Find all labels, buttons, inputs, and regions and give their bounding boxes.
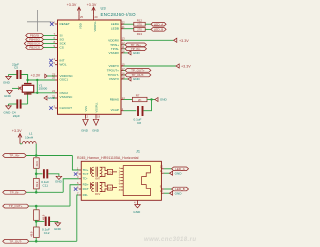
svg-text:GND: GND [4,94,12,98]
junction OSC2 [26,92,28,94]
svg-text:TP_OUT-: TP_OUT- [9,239,22,243]
svg-text:10: 10 [52,20,55,24]
label LED_A (right) [172,167,189,171]
label TP_OUT- (bottom) [3,239,29,243]
label TP_OUT- [125,73,151,77]
label GND (VSSRX) [128,51,131,55]
RJ45 jack pin ticks [120,168,123,190]
label GND (LED_B) [170,191,173,195]
wire VDDRX to +3.3V [124,39,174,41]
power flag +3.3V (L1) [18,134,22,144]
svg-text:RCV: RCV [95,193,101,196]
IC left pin stubs [55,24,58,108]
svg-text:RESET: RESET [60,22,70,26]
svg-text:TPOUT+: TPOUT+ [107,69,119,73]
IC bottom pin stubs [85,114,87,119]
svg-text:22pF: 22pF [13,114,20,118]
no-connect TCT [74,172,77,175]
svg-text:LEDA: LEDA [111,22,120,26]
ground C11 [55,176,63,183]
svg-text:GND: GND [92,128,100,132]
ground C5 [3,75,11,85]
label LED_B (top) [151,28,166,32]
label TP_OUT+ (bottom) [3,204,29,208]
svg-text:TP_OUT+: TP_OUT+ [9,204,23,208]
svg-text:GND: GND [175,171,183,175]
wire TPOUT- [124,74,126,76]
resistor R11 [30,227,40,238]
svg-text:+3.3V: +3.3V [31,73,41,77]
svg-text:RCT: RCT [83,187,89,191]
svg-text:GND: GND [55,179,63,183]
svg-text:CLKOUT: CLKOUT [60,106,73,110]
svg-text:25: 25 [80,15,83,19]
svg-text:C11: C11 [43,184,49,188]
svg-text:RJ45_Hanrun_HR911105A_Horizont: RJ45_Hanrun_HR911105A_Horizontal [77,156,139,160]
cursor crosshair [27,10,52,32]
svg-text:GND: GND [3,80,11,84]
capacitor C4 [12,99,21,118]
wire VCAP [124,110,137,112]
wire LED_A anode [164,168,172,170]
wire TP_IN+ to TD+ [72,156,78,171]
svg-text:LED_A: LED_A [154,22,164,26]
svg-text:J1: J1 [136,150,140,154]
wire C11 to GND [48,174,59,176]
label +3.3V (VDDRX) [174,38,177,42]
label LED_A (top) [151,22,166,26]
wire LED_A cathode [164,172,170,174]
wire R8 bottom [35,168,37,178]
svg-text:U3: U3 [101,6,107,11]
svg-text:49.9: 49.9 [35,181,39,187]
wire SO [44,39,56,41]
svg-text:49.9: 49.9 [30,231,34,237]
svg-text:2K: 2K [138,98,142,102]
svg-text:LEDB: LEDB [111,27,119,31]
capacitor C12 [42,217,50,235]
wire OSC1 to OSC2 link [36,80,38,93]
wire OSC2 [28,93,55,104]
J1 right pin stubs [161,169,164,193]
svg-text:GND: GND [133,51,141,55]
label GND (RBIAS) [155,98,158,102]
no-connect RCT [74,187,77,190]
crystal Y1 [22,80,47,94]
RJ45 jack outline [123,166,150,196]
junction C11 [35,173,38,176]
wire LEDA [124,23,134,25]
svg-text:XMT: XMT [95,178,101,181]
svg-text:VSS: VSS [84,106,88,112]
svg-text:RD-: RD- [83,193,88,197]
svg-text:TP_IN+: TP_IN+ [9,154,20,158]
wire R12 to LED_A [145,23,151,25]
label PB5/SCK [24,42,55,46]
svg-text:10mH: 10mH [25,135,33,139]
wire TP_IN+ row [26,155,72,157]
svg-text:270: 270 [137,23,142,27]
svg-text:VSSTX: VSSTX [109,77,119,81]
svg-text:VSSOSC: VSSOSC [60,95,74,99]
connector J1 RJ45 body [81,161,161,200]
junction C12 [35,220,38,223]
svg-text:+3.3V: +3.3V [87,3,97,7]
J1 left pin stubs [79,170,82,195]
label TP_OUT+ [125,69,151,73]
wire crystal case [12,87,19,89]
label GND (LED_A) [170,171,173,175]
power flag +3.3V (VDD) [77,7,80,15]
IC right pin names [107,22,120,112]
svg-text:GND: GND [54,227,62,231]
svg-text:12: 12 [160,164,163,168]
choke CD lower [107,185,112,190]
wire C5 right [21,75,27,80]
wire R13 to LED_B [145,28,151,30]
IC right pin stubs [121,24,124,111]
wire LED_B anode [164,188,172,190]
junction TP_IN- [35,191,38,194]
svg-text:GND: GND [4,111,12,115]
IC left pin numbers [52,20,56,108]
svg-text:C8: C8 [137,121,141,125]
no-connect crystal [18,87,21,90]
ground C4 [4,104,12,115]
transformer XMT [91,167,104,177]
svg-text:+3.3V: +3.3V [12,129,22,133]
wire TP_OUT+ row [29,205,70,207]
ground C12 [54,223,62,231]
label PB2/CS [26,46,55,50]
svg-text:GND: GND [160,98,168,102]
resistor R9 [34,178,40,189]
svg-text:VSSPLL: VSSPLL [94,102,98,113]
RJ45 jack pin numbers [119,168,121,192]
svg-text:LED_A: LED_A [175,167,185,171]
wire TP_OUT- to RD- [77,195,79,241]
svg-text:C12: C12 [44,231,50,235]
ground J1 shield [133,205,141,215]
svg-text:20: 20 [95,15,98,19]
svg-text:25000: 25000 [39,87,48,91]
ground VSSPLL [93,119,99,125]
svg-text:TP_OUT+: TP_OUT+ [131,69,145,73]
wire R11 bottom [35,238,37,242]
svg-text:GND: GND [133,77,141,81]
resistor R10 [34,210,46,221]
wire CS [44,47,56,49]
junction TP_IN+ [35,154,38,157]
svg-text:ENC28J60-I/SO: ENC28J60-I/SO [101,12,137,17]
ground crystal [4,91,12,99]
wire C8 to junction [144,100,152,111]
wire TP_OUT+ to RD+ [70,185,79,206]
svg-text:RBIAS: RBIAS [110,98,119,102]
wire R7 to junction [147,99,155,101]
capacitor C11 [41,169,49,187]
svg-text:TD-: TD- [83,177,88,181]
wire RBIAS [124,99,133,101]
wire LEDB [124,28,134,30]
svg-text:GND: GND [133,210,141,214]
wire L1 to TP_IN+ node [35,144,37,156]
svg-text:PB2/CS: PB2/CS [29,46,40,50]
op-amp U3 ENC28J60 body [58,20,122,114]
svg-text:CD: CD [108,171,112,174]
label +3.3V (VDDTX) [176,64,179,68]
junction link bottom [36,92,38,94]
wire C4 right [21,103,27,105]
svg-text:R7: R7 [136,94,140,98]
capacitor C8 [134,106,143,125]
svg-text:R12: R12 [137,18,143,22]
svg-text:CS: CS [60,46,64,50]
svg-text:+3.3V: +3.3V [67,3,77,7]
wire TP_IN- to TD- [63,179,79,193]
svg-text:19: 19 [97,115,100,119]
no-connect RESET [50,22,54,26]
svg-text:VDDRX: VDDRX [108,39,119,43]
svg-text:R13: R13 [137,32,143,36]
J1 right pin numbers [160,164,163,193]
wire VSSTX [124,78,128,80]
IC top pin stubs [78,15,80,20]
wire VDDTX to +3.3V [124,65,177,67]
label TP_IN- [125,47,147,51]
wire TPIN+ [124,44,126,46]
label PB3/SI [26,34,55,38]
choke CD upper [107,169,112,174]
wire C5 left [9,74,17,76]
IC left pin names [60,22,74,110]
wire C4 left [9,103,17,105]
junction OSC1 [26,79,28,81]
wire CD links [103,167,117,191]
wire L1 left [20,143,22,145]
svg-text:WOL: WOL [60,63,67,67]
svg-text:CD: CD [108,187,112,190]
wire R9 bottom [35,189,37,192]
J1 left pin names [83,168,89,197]
ground VSS [83,119,89,125]
resistor R7 [132,94,147,102]
svg-text:VDD: VDD [79,23,83,29]
svg-text:www.cnc3018.ru: www.cnc3018.ru [144,237,196,243]
label GND (VSSTX) [128,77,131,81]
no-connect CLKOUT [49,106,53,110]
capacitor C5 [12,62,21,79]
wire R10 bottom [35,220,37,227]
svg-text:49.9: 49.9 [35,161,39,167]
no-connect INT [49,59,53,63]
label GND (VSSOSC) [44,96,47,100]
svg-text:TP_IN-: TP_IN- [10,190,20,194]
no-connect WOL [49,63,53,67]
wire to C12 [36,220,44,222]
power flag +3.3V (VDDPLL) [92,7,95,15]
wire TP_IN- row [26,191,63,193]
wire VDDOSC [47,75,55,77]
label TP_IN- (bottom) [3,190,27,194]
J1 shield pin stub [137,200,139,204]
wire TPOUT+ [124,69,126,71]
IC right pin numbers [122,21,125,112]
svg-text:+3.3V: +3.3V [181,65,191,69]
svg-text:VSSRX: VSSRX [109,51,120,55]
svg-text:+3.3V: +3.3V [179,39,189,43]
svg-text:TCT: TCT [83,172,89,176]
svg-text:GND: GND [81,128,89,132]
svg-text:10: 10 [160,189,163,193]
J1 left pin numbers [77,166,79,195]
junction TP_OUT+ [35,205,38,208]
resistor R13 [134,28,145,37]
svg-text:GND: GND [175,191,183,195]
label TP_IN+ [125,43,147,47]
junction TP_OUT- [35,240,38,243]
junction link top [36,79,38,81]
inductor L1 [22,132,36,144]
wire SI [44,35,56,37]
junction RBIAS/VCAP [150,98,152,100]
wire OSC1 [28,75,55,81]
wire VSSRX [124,52,128,54]
wire LED_B cathode [164,192,170,194]
wire TP_OUT- row [29,240,77,242]
wire TPIN- [124,48,126,50]
label TP_IN+ (bottom) [3,154,27,158]
label PB4/SO [26,38,55,42]
label LED_B (right) [172,187,189,191]
wire to C11 [36,173,42,175]
svg-text:LED_B: LED_B [154,28,164,32]
svg-text:VDDPLL: VDDPLL [93,21,97,32]
transformer RCV [91,182,104,192]
svg-text:11: 11 [160,169,163,173]
svg-text:VDDTX: VDDTX [109,64,120,68]
wire R10 top [35,206,37,210]
wire VSSOSC [53,97,55,99]
resistor R8 [34,158,40,169]
svg-text:C5: C5 [14,65,18,69]
wire C12 to GND [50,221,58,222]
resistor R12 [134,18,145,26]
svg-text:OSC1: OSC1 [60,78,69,82]
wire SCK [44,43,56,45]
svg-text:VCAP: VCAP [111,108,119,112]
